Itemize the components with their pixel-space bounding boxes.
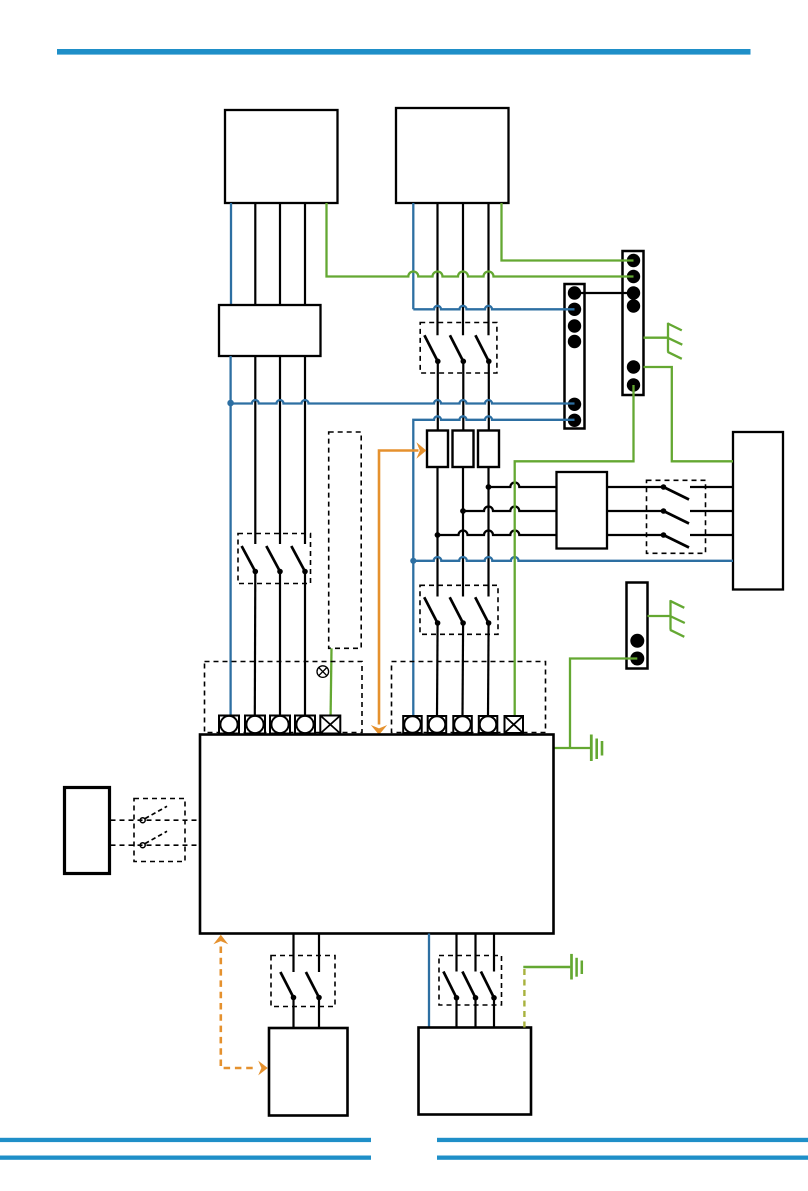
breaker Q3 pole 3 dot (486, 620, 492, 626)
wire green busbar PE2 to earth electrode (570, 659, 637, 749)
terminal T9 (479, 716, 498, 733)
wire PV1 black 2 (279, 203, 281, 305)
terminal T5 PE crossed (320, 716, 340, 734)
top header bar (57, 49, 751, 55)
wire Q1 pole3 to terminal (304, 572, 306, 716)
terminal T3 (270, 716, 290, 734)
wire combiner blue down to inverter terminal (229, 356, 231, 716)
busbar PE dot 4 (627, 299, 640, 312)
busbar N dot 3 (568, 319, 581, 332)
breaker Q2 pole 3 blade (475, 335, 488, 361)
wire green busbar PE to inverter PE terminal (515, 385, 634, 716)
wire green load PE stem (523, 966, 570, 968)
busbar PE2 (small block) (627, 583, 648, 669)
box monitoring unit (left small) (65, 788, 110, 874)
wire blue busbar N to inverter AC-in N (hops) (413, 416, 574, 716)
breaker Q2 pole 2 blade (450, 335, 463, 361)
wire PV1 black 3 (304, 203, 306, 305)
box load (419, 1028, 532, 1115)
node junction L3 tap (486, 484, 492, 490)
wire Q2 pole1 to fuse1 (437, 361, 439, 430)
terminal T4 (295, 716, 315, 734)
wire green conduit to inverter PE terminal (329, 648, 332, 715)
earth symbol at busbar PE2 (648, 600, 685, 637)
dry contact 1 blade dashed (145, 806, 167, 818)
wire green PE from PV1 to busbar PE (humps) (327, 203, 634, 277)
dry contact 1 pivot (140, 818, 145, 823)
busbar PE dot 2 (627, 270, 640, 283)
wire Q1 pole2 to terminal (279, 572, 281, 716)
busbar N (left terminal block) (565, 284, 585, 429)
wire tap L1 to meter (humps) (438, 531, 557, 536)
box PV array 2 (396, 108, 509, 203)
wire blue PV2 N to busbar N (hops) (413, 306, 574, 310)
breaker Q5 dashed box (load) (439, 956, 502, 1006)
breaker Q3 pole 1 dot (435, 620, 441, 626)
breaker Q1 pole 3 blade (291, 546, 305, 572)
earth electrode symbol load (572, 954, 582, 980)
dashed signal line 2 (111, 844, 201, 846)
wire inverter load out 2 (474, 934, 476, 972)
wire S1 pole1 to grid box (690, 486, 733, 488)
breaker Q1 pole 1 contact dot (253, 569, 259, 575)
busbar PE dot 1 (627, 254, 640, 267)
busbar N dot 5 (568, 398, 581, 411)
breaker Q5 pole3 blade (481, 972, 494, 998)
box grid utility (tall right) (733, 432, 783, 590)
switch S1 pole1 blade (664, 487, 690, 500)
breaker Q4 pole1 dot (291, 995, 297, 1001)
terminal T10 PE crossed (505, 716, 524, 733)
box combiner (219, 305, 321, 356)
terminal group dashed box left (205, 662, 363, 733)
bottom footer bar right lower (437, 1156, 808, 1160)
busbar N dot 2 (568, 303, 581, 316)
busbar PE2 dot 2 (630, 652, 644, 666)
orange annotation arrow DC input (371, 442, 427, 735)
breaker Q4 pole2 blade (306, 972, 319, 998)
breaker Q3 pole 2 dot (460, 620, 466, 626)
wire meter to switch S1 line1 (607, 486, 664, 488)
wire Q4 pole1 to battery box (292, 998, 294, 1029)
busbar PE2 dot 1 (630, 634, 644, 648)
wire combiner black 3 down (304, 356, 306, 544)
wire combiner black 1 down (254, 356, 256, 544)
node junction blue combiner tap (227, 400, 234, 407)
breaker Q3 pole 1 blade (424, 597, 437, 623)
terminal T2 (245, 716, 265, 734)
wire fuse1 down to breaker Q3 (436, 467, 438, 597)
breaker Q5 pole2 dot (473, 995, 479, 1001)
dry contact 2 pivot (140, 843, 145, 848)
terminal T6 (AC N blue) (403, 716, 422, 733)
wire blue N line combiner to busbar N (hops) (231, 400, 575, 403)
wire PV2 black 3 (487, 203, 489, 335)
wire PV2 blue down (412, 203, 414, 309)
box PV array 1 (225, 110, 338, 203)
switch S1 pole3 dot (661, 532, 667, 538)
switch S1 dashed box (grid isolation) (647, 480, 706, 553)
fuse F3 (478, 431, 499, 468)
breaker Q5 pole1 blade (443, 972, 456, 998)
breaker Q1 pole 3 contact dot (302, 569, 308, 575)
node junction L2 tap (460, 508, 466, 514)
terminal T8 (453, 716, 472, 733)
breaker Q5 pole1 dot (454, 995, 460, 1001)
wire inverter load N blue (428, 934, 430, 1028)
node junction L1 tap (435, 532, 441, 538)
wire Q4 pole2 to battery box (318, 998, 320, 1029)
wire inverter load out 1 (455, 934, 457, 972)
terminal T7 (428, 716, 447, 733)
wire Q1 pole1 to terminal (254, 572, 257, 716)
wire meter to switch S1 line2 (607, 510, 664, 512)
busbar PE dot 5 (627, 360, 640, 373)
dry contact dashed box (134, 799, 185, 862)
bottom footer bar right top (437, 1138, 808, 1142)
wire fuse3 down to breaker Q3 (487, 467, 489, 597)
fuse F2 (453, 431, 474, 468)
node junction blue backup tap (410, 558, 416, 564)
wire blue to grid box (hops) (413, 557, 733, 561)
wire green PE from PV2 to busbar PE (502, 203, 634, 261)
wire Q5 pole3 to load box (493, 998, 495, 1028)
breaker Q2 pole 1 contact dot (435, 359, 441, 365)
earth electrode symbol right of inverter (554, 735, 603, 762)
busbar PE dot 3 (627, 286, 640, 299)
wire tap L3 to meter (hump over green) (489, 483, 557, 488)
orange dashed annotation arrow battery (213, 935, 267, 1076)
breaker Q2 dashed box (top right) (420, 323, 497, 374)
wire Q3 pole1 to terminal (436, 623, 439, 716)
bottom footer bar left top (0, 1138, 371, 1142)
wire PV2 black 2 (462, 203, 464, 335)
wire Q3 pole2 to terminal (461, 623, 464, 716)
wire inverter load out 3 (493, 934, 495, 972)
breaker Q3 dashed box (backup AC switch) (420, 585, 498, 634)
breaker Q2 pole 3 contact dot (486, 359, 492, 365)
dry contact 2 blade dashed (145, 831, 167, 843)
breaker Q4 dashed box (battery) (271, 956, 335, 1007)
wire tap L2 to meter (humps) (463, 507, 557, 512)
dashed signal line 1 (111, 819, 201, 821)
breaker Q3 pole 3 blade (475, 597, 488, 623)
breaker Q5 pole2 blade (462, 972, 475, 998)
earth symbol at busbar PE (644, 323, 683, 359)
wire Q2 pole3 to fuse3 (488, 361, 490, 430)
switch S1 pole1 dot (661, 484, 667, 490)
breaker Q1 dashed box (left DC switch) (238, 534, 311, 584)
busbar N dot 6 (568, 414, 581, 427)
breaker Q4 pole2 dot (316, 995, 322, 1001)
wire inverter battery out 2 (318, 934, 320, 973)
wire green dashed load PE (523, 968, 525, 1028)
wire S1 pole3 to grid box (690, 534, 733, 536)
breaker Q1 pole 2 blade (266, 546, 280, 572)
breaker Q3 pole 2 blade (450, 597, 463, 623)
wire green busbar PE to grid box (644, 367, 734, 461)
breaker Q1 pole 2 contact dot (277, 569, 283, 575)
box energy meter (557, 472, 608, 549)
lamp symbol circled X (317, 666, 329, 678)
wire S1 pole2 to grid box (690, 510, 733, 512)
breaker Q2 pole 1 blade (424, 335, 437, 361)
busbar N dot 4 (568, 335, 581, 348)
terminal group dashed box right (392, 662, 546, 733)
wire PV1 black 1 (254, 203, 256, 305)
wire inverter battery out 1 (292, 934, 294, 973)
bottom footer bar left lower (0, 1156, 371, 1160)
breaker Q1 pole 1 blade (242, 546, 256, 572)
wire Q5 pole1 to load box (455, 998, 457, 1028)
box inverter (200, 735, 554, 934)
wire link busbar N to busbar PE (575, 292, 634, 294)
breaker Q4 pole1 blade (280, 972, 293, 998)
wire PV1 blue to combiner (230, 203, 232, 305)
breaker Q5 pole3 dot (491, 995, 497, 1001)
breaker Q2 pole 2 contact dot (461, 359, 467, 365)
wire Q5 pole2 to load box (474, 998, 476, 1028)
box battery (269, 1028, 348, 1116)
wire PV2 black 1 (436, 203, 438, 335)
switch S1 pole2 blade (664, 511, 690, 524)
dashed conduit box (tall) (329, 432, 362, 648)
wire fuse2 down to breaker Q3 (462, 467, 464, 597)
switch S1 pole2 dot (661, 508, 667, 514)
switch S1 pole3 blade (664, 535, 690, 548)
wire Q2 pole2 to fuse2 (462, 361, 464, 430)
wire combiner black 2 down (279, 356, 281, 544)
busbar PE dot 6 (627, 378, 640, 391)
busbar PE (right terminal block) (623, 251, 644, 395)
fuse F1 (427, 431, 448, 468)
wire meter to switch S1 line3 (607, 534, 664, 536)
wire Q3 pole3 to terminal (487, 623, 490, 716)
terminal T1 (PV+ blue) (219, 716, 239, 734)
busbar N dot 1 (568, 286, 581, 299)
